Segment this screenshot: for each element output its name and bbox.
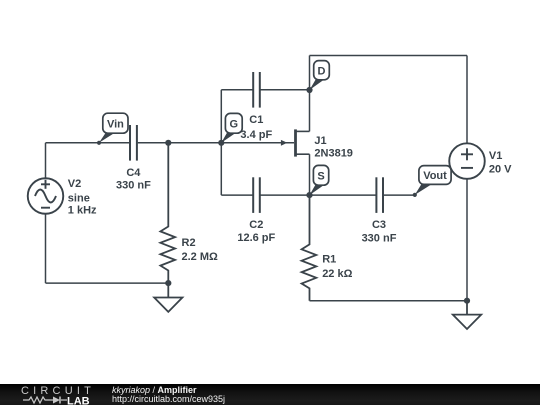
transistor J1 (N-JFET 2N3819) [281,129,310,156]
svg-text:2.2 MΩ: 2.2 MΩ [182,251,219,263]
node junction branch/gate [218,140,224,146]
svg-text:C1: C1 [249,114,263,126]
svg-text:2N3819: 2N3819 [314,148,353,160]
wire source row to C3 [310,194,377,196]
svg-text:V2: V2 [68,178,81,190]
svg-text:C4: C4 [126,167,141,179]
wire branch vertical (C1/C2 split) [220,90,222,195]
wire C3 to Vout [383,194,414,196]
svg-text:R2: R2 [182,237,196,249]
svg-text:S: S [317,170,324,182]
ground under R2 [154,283,182,312]
svg-text:sine: sine [68,193,90,205]
svg-text:Vout: Vout [423,170,447,182]
node Vin attach dot [97,141,101,145]
logo LAB row [23,395,95,405]
wire C1 row right [260,89,309,91]
wire drain vertical up [309,56,311,132]
node junction V1/ground [464,298,470,304]
svg-text:C3: C3 [372,219,386,231]
node junction R2/bottom [165,280,171,286]
flag S [310,165,329,195]
capacitor C4 [130,125,137,161]
svg-text:Vin: Vin [107,118,124,130]
capacitor C1 [253,72,260,108]
voltage source V2 [28,178,64,214]
node S junction [306,192,312,198]
wire V2 bottom lead [45,214,47,283]
node junction C1/drain [306,87,312,93]
footer bar [0,384,540,405]
svg-text:G: G [230,118,239,130]
logo CIRCUIT text [21,387,95,396]
svg-text:V1: V1 [489,150,502,162]
node junction R2/gate [165,140,171,146]
logo diode [53,397,60,404]
wire V1 top lead [466,56,468,144]
wire C2 row right [260,194,309,196]
footer credit line [112,386,197,395]
wire bottom-right row [310,300,468,302]
capacitor C3 [376,177,383,213]
wire bottom-left row [46,282,169,284]
svg-text:1 kHz: 1 kHz [68,205,97,217]
wire V1 bottom lead [466,179,468,301]
node Vout attach dot [413,193,417,197]
svg-text:330 nF: 330 nF [116,180,151,192]
svg-text:12.6 pF: 12.6 pF [237,232,275,244]
wire gate row right of C4 to JFET [138,142,294,144]
flag Vin [99,113,128,143]
svg-text:22 kΩ: 22 kΩ [322,268,352,280]
wire C1 row left [221,89,253,91]
svg-text:D: D [318,65,326,77]
capacitor C2 [253,177,260,213]
ground under V1 [453,301,481,329]
wire V2 top lead [45,143,47,179]
wire source vertical down [309,154,311,195]
logo resistor zigzag [23,397,53,403]
flag G [221,113,242,142]
wire top row [310,55,468,57]
svg-text:330 nF: 330 nF [362,232,397,244]
wire C2 row left [221,194,253,196]
flag D [310,61,330,90]
flag Vout [415,166,451,195]
svg-text:R1: R1 [322,253,336,265]
svg-text:3.4 pF: 3.4 pF [240,129,272,141]
resistor R2 [160,143,175,283]
resistor R1 [302,195,317,301]
svg-text:C2: C2 [249,219,263,231]
svg-text:20 V: 20 V [489,163,512,175]
svg-text:J1: J1 [314,135,326,147]
footer url line [112,395,225,404]
wire gate row left [46,142,130,144]
voltage source V1 [449,143,485,179]
svg-text:LAB: LAB [67,396,90,405]
